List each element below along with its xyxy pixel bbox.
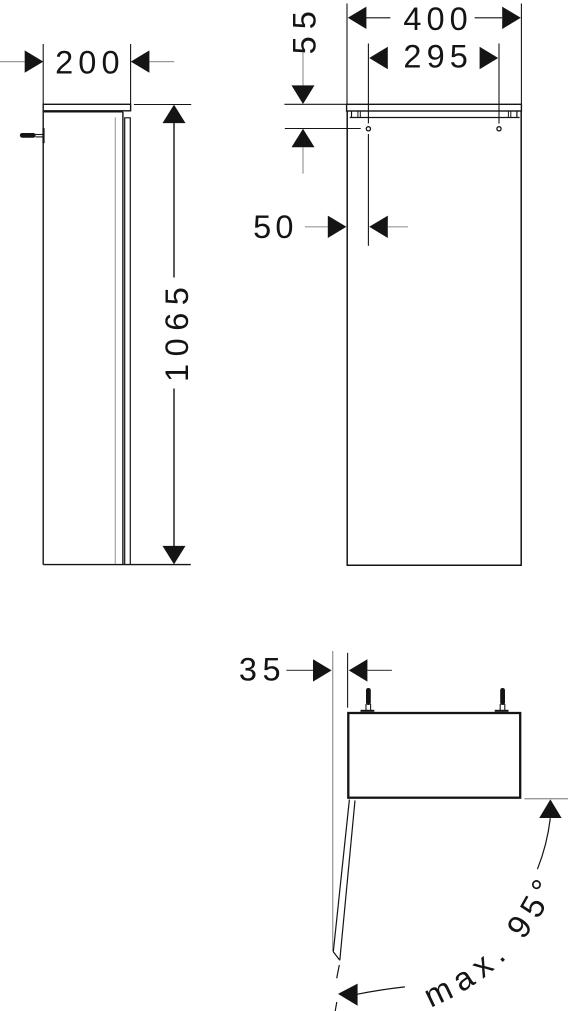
top view cabinet body (348, 713, 520, 798)
dim 200 tail left (0, 61, 25, 63)
swing arc arrowhead (338, 984, 358, 1006)
front view left foot ticks (357, 112, 359, 118)
svg-text:400: 400 (403, 1, 473, 37)
open door extension dash (337, 965, 340, 978)
screw hole right (497, 127, 501, 131)
svg-text:1065: 1065 (159, 280, 195, 382)
side view door panel (125, 118, 131, 565)
svg-text:200: 200 (55, 45, 125, 81)
svg-text:35: 35 (239, 652, 286, 688)
top view screw left base (361, 710, 375, 712)
dim 35 arrow left-pointing (349, 659, 368, 681)
dim 1065 arrow up (163, 105, 186, 124)
swing arc upper segment (537, 818, 550, 869)
dim 400 arrow right (502, 7, 521, 29)
top view screw left stem (366, 688, 371, 705)
dim 55 arrow up (292, 129, 315, 148)
wall-mount screw (side view) threads (35, 134, 43, 136)
dim 35 tail left (286, 669, 313, 671)
wall-mount screw (side view) stem (20, 133, 36, 138)
dim 295 arrow right (480, 47, 499, 69)
front view right foot ticks (507, 112, 509, 118)
dim 55 arrow down (292, 85, 315, 104)
dim 50 arrow left-pointing (369, 216, 388, 238)
svg-text:55: 55 (287, 4, 323, 54)
dim 35 arrow right-pointing (313, 659, 332, 681)
wall-mount plate (side view) (42, 128, 44, 143)
dim 1065 line lower (173, 389, 175, 547)
dim 50 extension line (367, 134, 369, 246)
dim 1065 line upper (173, 123, 175, 278)
dim 200 tail right (149, 61, 174, 63)
wall reference line (gray) (332, 651, 334, 951)
front view body outline (347, 111, 521, 565)
open door outer face (333, 800, 349, 952)
dim 1065 extension line top (134, 104, 191, 106)
top view screw right legs (499, 704, 501, 712)
open door end cap (333, 952, 340, 961)
swing arc arrow up (539, 799, 561, 818)
front view left foot tab (351, 111, 353, 118)
dim 200 arrow left (25, 50, 44, 72)
dim 50 arrow right-pointing (328, 216, 347, 238)
dim 55 tail bottom (302, 147, 304, 173)
screw hole left (366, 127, 370, 131)
side view bottom edge (43, 564, 191, 566)
svg-text:50: 50 (253, 209, 298, 245)
dim 50 tail left (305, 226, 328, 228)
side view carcass left edge (42, 111, 44, 565)
dim 55 extension line top (284, 103, 346, 105)
dim 55 tail top (302, 53, 304, 86)
dim 200 extension line left (42, 44, 44, 104)
side view top panel (43, 104, 130, 111)
dim 200 arrow right (131, 50, 150, 72)
open door extension dash lower (335, 1002, 337, 1011)
swing arc lower segment (358, 987, 405, 994)
dim 400 line left (366, 17, 390, 19)
svg-text:295: 295 (403, 38, 473, 74)
dim 295 extension line right (498, 44, 500, 124)
dim 400 extension line right (520, 4, 522, 105)
dim 400 arrow left (348, 7, 367, 29)
dim 400 extension line left (346, 4, 348, 105)
dim 295 arrow left (369, 47, 388, 69)
top view body extension line (347, 653, 349, 708)
open door inner face (340, 800, 355, 960)
dim 400 line right (475, 17, 503, 19)
dim 1065 arrow down (163, 546, 186, 565)
front view top panel (347, 104, 522, 111)
dim 35 tail right (367, 669, 392, 671)
closed door reference line right (gray) (524, 798, 568, 800)
side view carcass front edge (122, 112, 124, 565)
front view right foot tab (516, 111, 518, 118)
side view carcass top edge (44, 111, 123, 113)
dim 295 extension line left (367, 44, 369, 124)
dim 55 extension line bottom (285, 128, 361, 130)
top view screw right base (495, 710, 509, 712)
top view screw right stem (500, 688, 505, 705)
dim 50 tail right (388, 226, 408, 228)
side view inner gray line (114, 117, 116, 564)
front view carcass top edge (350, 117, 520, 119)
top view screw left legs (365, 704, 367, 712)
dim 200 extension line right (130, 44, 132, 104)
